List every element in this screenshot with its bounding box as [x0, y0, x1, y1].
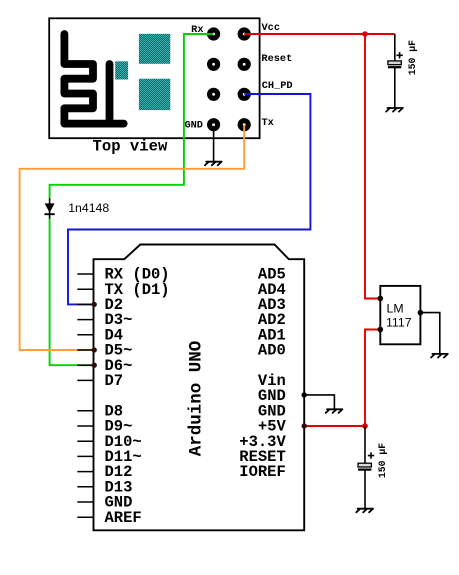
svg-text:CH_PD: CH_PD: [262, 80, 293, 92]
ESP pin Vcc: [238, 27, 251, 40]
Arduino right pin labels: [239, 266, 286, 482]
wire orange Tx net: [20, 125, 245, 350]
ground under C2: [356, 509, 373, 513]
wire stub red into Vcc pad: [244, 33, 251, 35]
chip IC1 (large top): [139, 34, 170, 64]
svg-text:AD0: AD0: [258, 342, 286, 360]
wire red Vcc net top: [244, 33, 395, 35]
node dot GND pin: [302, 392, 307, 397]
chip crystal (small): [115, 61, 128, 79]
ESP pin GPIO2 row3 left: [207, 88, 220, 101]
svg-text:Tx: Tx: [262, 117, 274, 129]
svg-text:Reset: Reset: [261, 53, 292, 65]
svg-text:150 µF: 150 µF: [407, 40, 418, 75]
LM1117 pin gnd (right): [418, 310, 424, 316]
wire Arduino GND to ground: [304, 395, 334, 409]
wire red LM1117 out to +5V: [304, 330, 380, 427]
svg-text:D7: D7: [105, 372, 124, 390]
wire LM1117 gnd: [420, 313, 439, 354]
wire blue CH_PD net: [68, 94, 310, 304]
wire ESP GND to ground: [213, 127, 215, 162]
PCB antenna meander: [64, 34, 123, 124]
wire green Rx net: [50, 34, 214, 365]
node dot D2: [92, 302, 97, 307]
node dot D6: [92, 363, 97, 368]
capacitor C2 plus sign: [368, 452, 374, 458]
capacitor C2 150uF lead: [364, 426, 366, 508]
ESP-01 module body: [49, 18, 259, 138]
capacitor C1 plus sign: [396, 52, 402, 58]
node dot +5V pin: [302, 423, 307, 428]
svg-text:1n4148: 1n4148: [68, 201, 109, 215]
capacitor C2 plates: [358, 463, 371, 469]
ESP pin GND: [207, 118, 220, 131]
ground for LM1117: [431, 354, 448, 358]
ESP pin Tx: [238, 118, 251, 131]
wire stub blue into CH_PD pad: [244, 93, 251, 95]
ESP pin Rx: [207, 27, 220, 40]
svg-text:AREF: AREF: [105, 509, 142, 527]
node dot D5: [92, 347, 97, 352]
svg-text:LM: LM: [387, 302, 404, 316]
capacitor C1 plates: [388, 61, 401, 67]
svg-text:150 µF: 150 µF: [377, 443, 388, 478]
wire red vertical to LM1117 input: [365, 34, 380, 299]
wire stub orange into Tx pad: [243, 125, 245, 132]
node junction red +5V: [362, 423, 368, 429]
Arduino UNO body: [94, 245, 305, 531]
svg-text:Top view: Top view: [93, 137, 169, 155]
svg-text:GND: GND: [184, 120, 203, 132]
ground under C1: [386, 108, 403, 112]
ESP pin CH_PD row3 right: [238, 88, 251, 101]
LM1117 pin out (bottom-left): [378, 327, 384, 333]
svg-text:Arduino UNO: Arduino UNO: [187, 341, 207, 457]
svg-text:1117: 1117: [386, 316, 412, 330]
svg-text:IOREF: IOREF: [239, 463, 286, 481]
svg-text:Rx: Rx: [191, 24, 203, 36]
node junction red top: [362, 31, 368, 37]
ESP pin Reset row2 right: [238, 58, 251, 71]
Arduino left pin stubs: [77, 274, 93, 517]
wire stub green into Rx pad: [207, 33, 214, 35]
Arduino left pin labels: [105, 266, 170, 527]
LM1117 pin in (top-left): [378, 296, 384, 302]
capacitor C1 150uF lead top: [394, 34, 396, 108]
svg-text:Vcc: Vcc: [262, 22, 281, 34]
chip IC2 (large bottom): [139, 79, 170, 110]
ground for Arduino GND: [326, 409, 343, 413]
diode D1 1n4148: [45, 198, 55, 218]
ESP pin GPIO0 row2 left: [207, 58, 220, 71]
ground under ESP GND: [205, 162, 222, 166]
LM1117 body U1: [380, 286, 420, 344]
